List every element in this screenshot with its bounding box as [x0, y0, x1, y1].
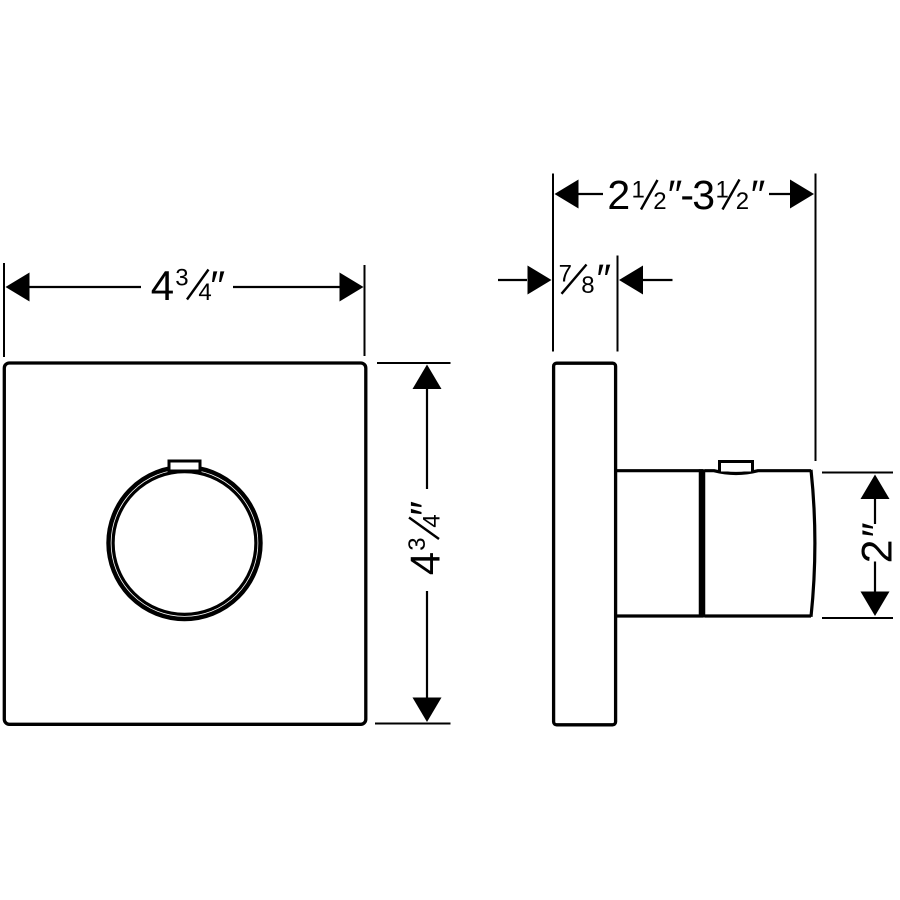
depth range dimension: right extension line [815, 174, 817, 462]
handle/stem divider line (side view) [699, 469, 706, 617]
valve stem bottom edge (side view) [616, 614, 703, 617]
handle height dimension line upper segment [874, 498, 876, 524]
width dimension: left arrowhead [6, 273, 30, 302]
plate thickness dimension: right leader line [643, 279, 673, 281]
knob outer ring (front view) [109, 467, 261, 619]
handle top edge with dome dip under tab (side view) [705, 471, 811, 474]
handle height dimension: bottom extension line [822, 617, 893, 619]
plate thickness dimension: left arrowhead pointing right [528, 266, 552, 295]
handle bottom edge (side view) [705, 614, 811, 617]
handle height dimension: down arrowhead [861, 592, 890, 617]
depth range dimension line right segment [769, 193, 791, 195]
depth range dimension: left arrowhead [555, 180, 579, 209]
handle right end cap arc (side view) [811, 470, 815, 617]
label 2 1/2 - 3 1/2 inch (depth range) [607, 172, 765, 218]
knob inner ring (front view) [113, 472, 256, 615]
valve stem top edge (side view) [616, 469, 703, 472]
height dimension: top extension line [377, 362, 451, 364]
svg-text:2: 2 [736, 188, 749, 215]
label 4 3/4 inch (top width) [151, 262, 225, 309]
knob index tab (side view, open bottom) [720, 462, 753, 472]
width dimension: left extension line [3, 263, 5, 357]
plate thickness dimension: right extension line [617, 256, 619, 352]
label 7/8 inch (plate thickness) [559, 256, 611, 302]
width dimension line right segment [233, 286, 341, 288]
svg-text:″: ″ [210, 262, 225, 309]
height dimension: bottom arrowhead [413, 698, 442, 723]
plate thickness dimension: right arrowhead pointing left [619, 266, 643, 295]
svg-text:″: ″ [751, 172, 766, 218]
height dimension: top arrowhead [413, 365, 442, 390]
width dimension: right arrowhead [340, 273, 364, 302]
svg-text:1: 1 [632, 177, 645, 204]
svg-text:″: ″ [853, 522, 900, 537]
height dimension: bottom extension line [375, 723, 451, 725]
handle height dimension line lower segment [874, 562, 876, 593]
svg-text:″: ″ [597, 256, 612, 302]
width dimension line left segment [27, 286, 141, 288]
depth range dimension: right arrowhead [790, 180, 814, 209]
plate thickness dimension: left leader line [498, 279, 527, 281]
handle height dimension: top extension line [822, 472, 893, 474]
svg-text:″: ″ [402, 501, 449, 516]
height dimension line lower segment [426, 591, 428, 698]
svg-text:2: 2 [853, 539, 900, 563]
svg-text:2: 2 [607, 172, 630, 218]
svg-text:3: 3 [692, 172, 715, 218]
handle height dimension: up arrowhead [861, 475, 890, 500]
depth range dimension: left extension line [552, 174, 554, 352]
label 2 inch (handle height, rotated) [853, 522, 900, 563]
front escutcheon plate (square) [4, 363, 366, 724]
svg-text:8: 8 [581, 272, 594, 299]
depth range dimension line left segment [578, 193, 603, 195]
label 4 3/4 inch (right height, rotated) [402, 501, 449, 575]
svg-text:4: 4 [402, 552, 449, 575]
side view plate [554, 363, 616, 725]
knob index tab (front view) [169, 461, 200, 471]
svg-text:4: 4 [151, 262, 174, 309]
svg-text:3: 3 [404, 537, 431, 550]
svg-text:3: 3 [175, 265, 188, 292]
height dimension line upper segment [426, 389, 428, 489]
width dimension: right extension line [364, 265, 366, 356]
svg-text:2: 2 [653, 188, 666, 215]
